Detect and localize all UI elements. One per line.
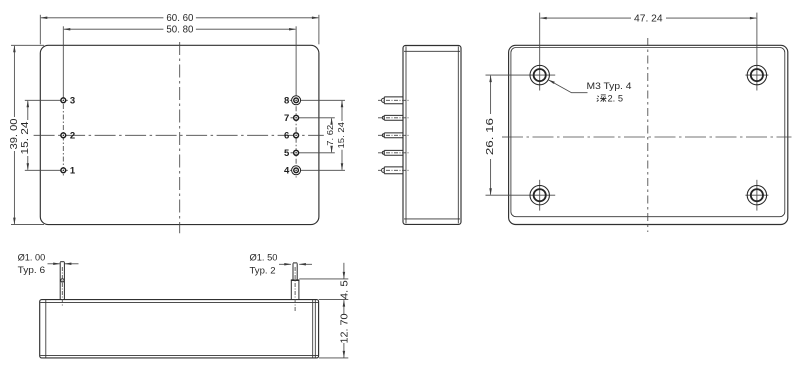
svg-text:60. 60: 60. 60 — [166, 13, 193, 24]
dimension 15.24 right — [341, 101, 343, 170]
side view pin 5 — [382, 150, 403, 155]
pin 7 — [294, 115, 299, 120]
dimension 4.5 — [299, 263, 348, 314]
side view pin 7 — [382, 115, 403, 120]
side view inner edge lines — [404, 47, 460, 224]
pin 4 — [292, 166, 301, 175]
left pin column centerline — [62, 104, 64, 177]
dimension arrows pin diameter 1.50 — [279, 263, 312, 265]
svg-text:6: 6 — [284, 131, 289, 142]
pin 8 — [292, 96, 301, 105]
right pin column centerline — [295, 96, 297, 178]
dimension 12.70 — [319, 343, 349, 358]
right pin extension lines — [290, 100, 345, 170]
mounting hole bottom-right — [745, 180, 768, 211]
svg-text:Typ. 6: Typ. 6 — [18, 265, 46, 275]
side view outline — [403, 46, 461, 225]
mounting hole top-right — [745, 13, 768, 91]
svg-text:2: 2 — [70, 131, 75, 142]
svg-text:4. 5: 4. 5 — [340, 280, 351, 299]
svg-text:26. 16: 26. 16 — [485, 118, 496, 156]
side view pin 8 — [382, 97, 404, 104]
svg-text:M3 Typ. 4: M3 Typ. 4 — [587, 81, 632, 91]
front view right pin — [291, 263, 299, 300]
dimension 39.00 — [11, 45, 44, 224]
svg-text:39. 00: 39. 00 — [9, 118, 20, 149]
dimension 47.24 — [540, 17, 756, 19]
dimension 7.62 — [331, 118, 333, 152]
svg-text:Ø1. 00: Ø1. 00 — [18, 252, 46, 262]
svg-text:15. 24: 15. 24 — [20, 121, 31, 155]
svg-text:3: 3 — [70, 96, 75, 107]
bottom view vertical centerline — [647, 38, 649, 232]
bottom view horizontal centerline — [502, 136, 792, 138]
svg-text:15. 24: 15. 24 — [337, 121, 346, 148]
top view horizontal centerline — [34, 134, 324, 136]
svg-text:1: 1 — [70, 166, 76, 177]
mounting hole top-left — [486, 13, 556, 91]
M3 leader — [548, 80, 588, 93]
bottom view inner edge — [511, 48, 785, 217]
dimension 60.60 — [40, 15, 319, 45]
front view inner edge lines — [40, 300, 318, 358]
pin 5 — [294, 150, 299, 155]
mounting hole bottom-left — [486, 180, 556, 211]
svg-text:12. 70: 12. 70 — [340, 313, 351, 343]
front view outline — [40, 300, 319, 358]
side view pin 6 — [382, 133, 403, 138]
label depth 2.5 — [597, 95, 607, 102]
svg-text:47. 24: 47. 24 — [634, 14, 663, 25]
svg-text:2. 5: 2. 5 — [608, 94, 624, 104]
pin 6 — [294, 133, 299, 138]
top view outline — [40, 45, 319, 224]
dimension 26.16 — [490, 76, 492, 195]
svg-text:5: 5 — [284, 148, 290, 159]
svg-text:4: 4 — [284, 166, 290, 177]
svg-text:7: 7 — [284, 113, 289, 124]
bottom view outline — [509, 45, 788, 224]
svg-text:Ø1. 50: Ø1. 50 — [250, 252, 278, 262]
top view vertical centerline — [179, 42, 181, 233]
pin 3 — [61, 98, 66, 103]
dimension 15.24 left — [25, 100, 68, 170]
front view left pin — [60, 262, 64, 300]
pin 2 — [61, 133, 66, 138]
side view pin 4 — [382, 167, 403, 174]
dimension arrows pin diameter 1.00 — [48, 263, 79, 265]
svg-text:Typ. 2: Typ. 2 — [250, 266, 276, 276]
pin 1 — [61, 168, 66, 173]
svg-text:7. 62: 7. 62 — [326, 124, 335, 146]
svg-text:8: 8 — [284, 96, 289, 107]
dimension 50.80 — [63, 26, 296, 100]
svg-text:50. 80: 50. 80 — [166, 25, 193, 36]
